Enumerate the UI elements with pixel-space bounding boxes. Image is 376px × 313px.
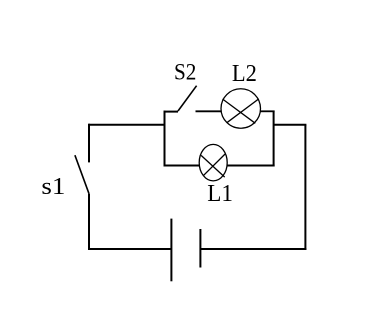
svg-text:L2: L2 [232, 61, 257, 87]
wire bottom branch right stub (lamp L1 to box right) [227, 165, 275, 167]
node: parallel box left edge [164, 111, 166, 167]
lamp L2 cross stroke 2 [227, 99, 259, 123]
wire left vertical upper segment [88, 124, 90, 163]
svg-text:s1: s1 [41, 174, 65, 200]
lamp L1 cross stroke 1 [201, 155, 225, 177]
lamp L1 cross stroke 2 [203, 154, 225, 176]
battery long plate (positive) [170, 219, 172, 282]
lamp L2 cross stroke 1 [223, 99, 256, 123]
wire top branch left stub (to switch S2) [164, 111, 179, 113]
wire top branch right stub (lamp L2 to box right) [260, 110, 274, 112]
node: parallel box right edge [273, 111, 275, 167]
wire bottom branch left stub (to lamp L1) [164, 165, 200, 167]
wire bottom-right horizontal [200, 248, 306, 250]
wire top branch middle stub (switch S2 to lamp L2) [196, 110, 222, 112]
wire left vertical lower segment [88, 194, 90, 250]
lamp L1 ellipse [199, 144, 227, 181]
wire right vertical [304, 125, 306, 250]
switch S2 (open blade) [178, 86, 197, 111]
wire top-left horizontal (node to parallel box left) [89, 124, 165, 126]
switch s1 (open blade) [75, 155, 89, 194]
battery short plate (negative) [199, 229, 201, 268]
svg-text:L1: L1 [207, 181, 233, 207]
wire top-right horizontal (box right to right wire) [274, 124, 307, 126]
wire bottom-left horizontal [88, 248, 171, 250]
lamp L2 circle [221, 89, 261, 129]
svg-text:S2: S2 [174, 60, 196, 86]
